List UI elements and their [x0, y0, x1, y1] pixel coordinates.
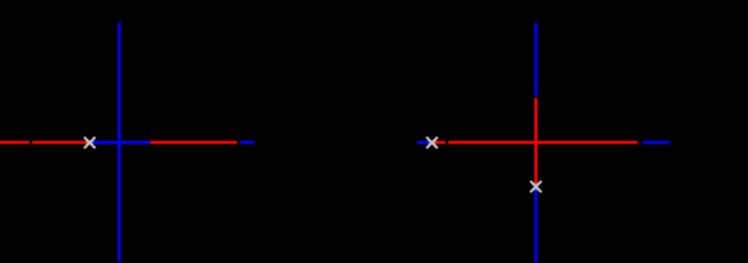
- wire: right plot short red real-axis segment after pole: [434, 141, 446, 144]
- pole marker X3 (right plot, on imaginary branch): [530, 181, 541, 192]
- left plot: vertical blue locus branch (imaginary axis): [118, 23, 121, 262]
- wire: right plot long red real-axis segment: [448, 141, 638, 144]
- wire: right plot blue real-axis segment right end: [642, 141, 670, 144]
- wire: right plot short blue real-axis segment left end: [417, 141, 430, 144]
- wire: left plot short blue real-axis segment right end: [240, 141, 255, 144]
- right plot: vertical blue branch upper: [534, 23, 537, 96]
- right plot: vertical red branch middle: [534, 98, 537, 185]
- wire: left plot blue real-axis segment through origin: [92, 141, 150, 144]
- wire: left plot red real-axis segment 3: [150, 141, 237, 144]
- right plot: vertical blue branch lower: [534, 189, 537, 262]
- pole marker X1 (left plot): [84, 137, 95, 148]
- pole marker X2 (right plot, on real axis): [426, 137, 437, 148]
- wire: left plot red real-axis segment 1: [0, 141, 30, 144]
- wire: left plot red real-axis segment 2: [32, 141, 88, 144]
